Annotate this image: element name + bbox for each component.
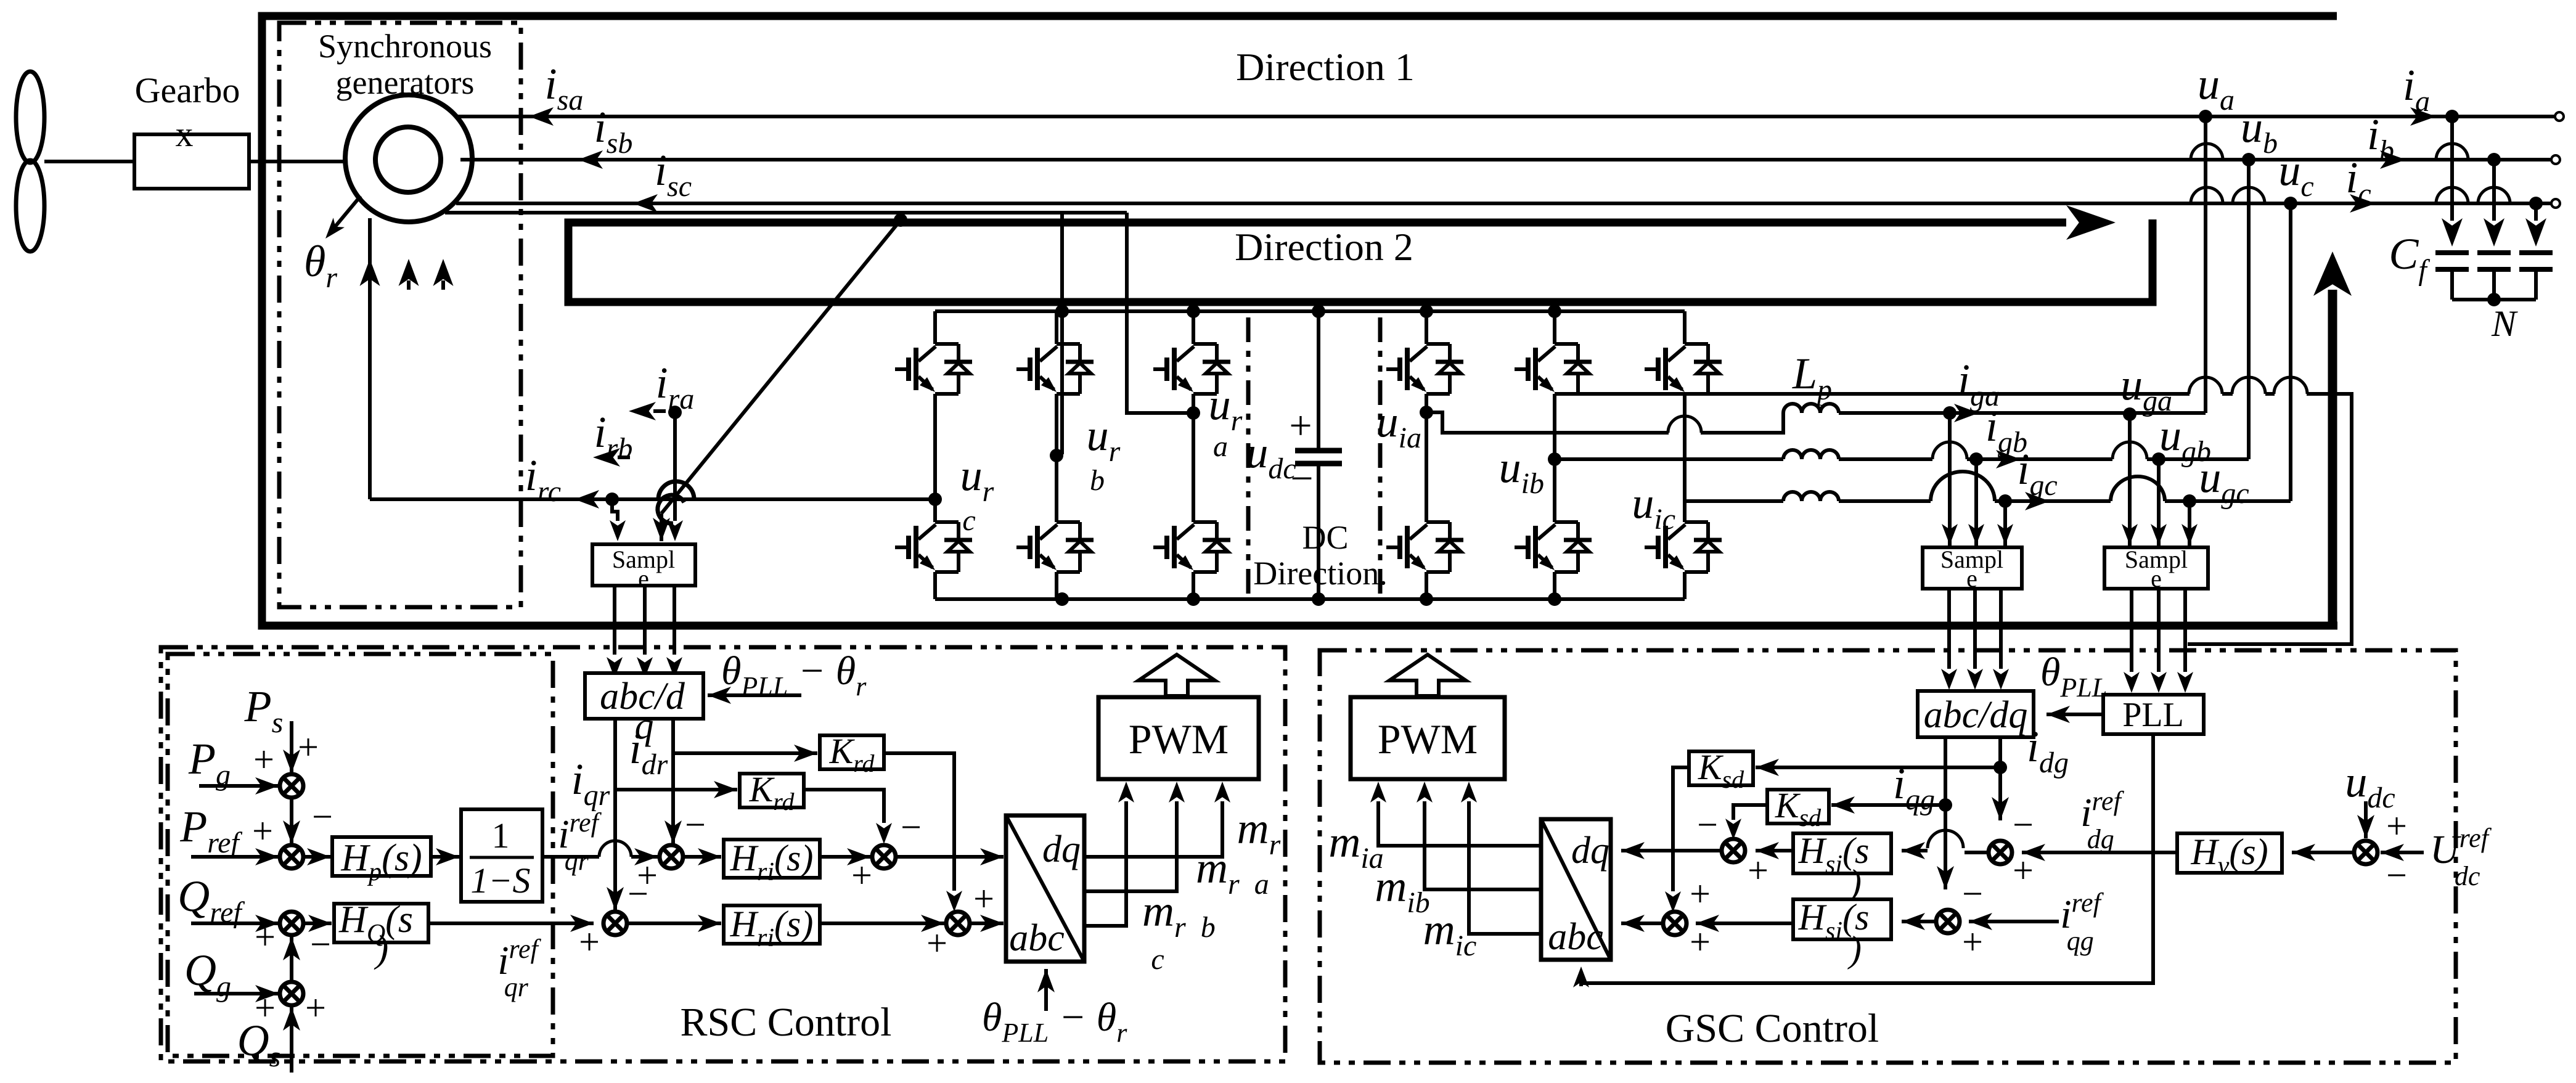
i_ga arrow — [1954, 404, 1979, 422]
svg-text:+: + — [253, 739, 274, 780]
svg-text:+: + — [579, 922, 600, 962]
PLL theta feedback wire to dq/abc — [1573, 734, 2153, 987]
block K_rd 1 — [820, 735, 884, 769]
block PWM rotor — [1098, 697, 1259, 779]
GSC phase a wire inductor to grid tap — [1839, 411, 2206, 415]
i_sc arrow — [633, 194, 658, 213]
i_ra arrow — [629, 402, 666, 420]
IGBT Q2 (RSC lower c) — [895, 522, 972, 572]
GSC leg a upper wire — [1425, 311, 1428, 344]
synchronous generator machine symbol — [345, 95, 472, 222]
H_si2 label — [1798, 897, 1870, 970]
i_b arrow — [2380, 150, 2406, 169]
block H_Q(s) — [334, 904, 428, 942]
svg-text:1: 1 — [492, 815, 510, 856]
RSC leg c lower wire — [933, 572, 937, 599]
i_a arrow — [2410, 107, 2436, 126]
sum junction S12 — [2354, 841, 2378, 864]
abc/dq output wire i_qg — [1944, 737, 1947, 805]
Q_g input arrow — [194, 992, 279, 995]
sample outputs to abc/dq — [607, 586, 682, 678]
svg-text:x: x — [176, 114, 194, 154]
node u_gb — [2152, 452, 2165, 466]
sum junction S2 — [280, 845, 303, 868]
svg-text:+: + — [851, 855, 872, 896]
svg-text:−: − — [1290, 456, 1313, 501]
u_ga wire down to sample — [2128, 414, 2132, 546]
svg-text:): ) — [1847, 929, 1862, 970]
GSC phase b wire inductor to grid tap — [1839, 442, 2249, 459]
node u_b — [2242, 153, 2255, 166]
grid phase line a (i_sa) — [457, 115, 2556, 118]
dq/abc grid outputs to PWM — [1370, 782, 1541, 934]
dash-dot box power references — [168, 654, 553, 1056]
svg-text:c: c — [1151, 943, 1164, 976]
u_b tap vertical — [2247, 160, 2251, 459]
arrows into grid current sample — [1942, 524, 2013, 545]
IGBT Q6 (RSC lower a) — [1153, 522, 1230, 572]
i_rc tap zigzag into sample — [610, 499, 626, 541]
RSC leg c upper wire — [933, 311, 937, 344]
block dq/abc grid — [1541, 819, 1611, 960]
sample label grid voltages — [2125, 546, 2188, 592]
turbine shaft wire — [44, 160, 134, 163]
wire S9 to dq/abc — [1621, 922, 1664, 925]
K_sd1 output to S9 — [1665, 767, 1689, 912]
grid terminal a — [2555, 112, 2564, 121]
IGBT Q3 (RSC upper b) — [1016, 344, 1094, 394]
sum junction S9 — [1663, 912, 1687, 935]
block H_ri(s) q-axis — [724, 905, 820, 944]
block abc/dq rotor — [585, 673, 703, 719]
crossing hop of i_ra wire over i_rc wire — [658, 481, 694, 523]
dq/abc outputs to PWM — [1084, 782, 1230, 926]
wire Hri1 to S4 — [820, 855, 870, 859]
PLL output arrow to abc/dq — [2046, 713, 2103, 716]
dash-dot box synchronous generator — [279, 23, 521, 607]
svg-text:abc: abc — [1548, 916, 1603, 958]
i_qr wire down — [613, 719, 617, 910]
grid voltage sample outputs — [2124, 589, 2193, 693]
GSC leg a midpoint wire — [1425, 394, 1428, 522]
block 1/(1-S) — [461, 809, 542, 902]
K_sd2 output to S10 — [1725, 805, 1767, 840]
label u_r c — [960, 451, 994, 537]
svg-text:−: − — [685, 804, 706, 845]
diagonal wire from auxiliary line to sample — [661, 220, 901, 513]
inductor L_p phase c — [1783, 492, 1839, 501]
sum junction S3 — [660, 845, 683, 868]
svg-text:DC: DC — [1302, 519, 1348, 556]
1/(1-S) label — [470, 815, 534, 901]
svg-text:+: + — [2013, 850, 2034, 891]
GSC leg b upper wire — [1553, 311, 1556, 344]
svg-text:−: − — [2013, 804, 2034, 845]
Q_ref input arrow — [191, 922, 279, 925]
i_dg wire to K_sd1 — [1756, 766, 2000, 769]
wire S8 up to S5 — [290, 937, 293, 983]
i_gc wire down to sample — [2003, 501, 2007, 546]
IGBT Q11 (GSC upper c) — [1645, 344, 1722, 394]
sum junction S5 — [280, 912, 303, 935]
svg-text:+: + — [973, 878, 994, 919]
node i_gc — [1998, 494, 2012, 508]
sum junction S6 — [603, 912, 627, 935]
node u_ia — [1420, 406, 1433, 419]
svg-text:PWM: PWM — [1129, 716, 1229, 762]
label u_r a — [1209, 380, 1243, 463]
wind turbine blades — [16, 72, 44, 251]
svg-text:−: − — [312, 796, 333, 837]
H_si1 label — [1798, 830, 1870, 903]
hops of line c over C_f legs a b — [2436, 187, 2510, 203]
IGBT Q8 (GSC lower a) — [1386, 522, 1463, 572]
node on auxiliary line feeding rotor sample — [894, 213, 907, 227]
sum junction S10 — [1722, 839, 1745, 862]
rotor wire i_rc — [370, 497, 935, 501]
block H_si(s) q — [1793, 899, 1891, 939]
i_gb arrow — [1996, 450, 2021, 468]
GSC leg b midpoint wire — [1553, 394, 1556, 522]
dash-dot box RSC control — [161, 647, 1285, 1061]
label synchronous generators — [318, 28, 492, 101]
wire S4 to dq/abc — [895, 855, 1004, 859]
wire S11 to H_si1 — [1902, 830, 1989, 859]
sum junction S13 — [1936, 910, 1960, 933]
wire S13 to H_si2 — [1902, 920, 1937, 923]
RSC leg a lower wire — [1192, 572, 1195, 599]
svg-text:+: + — [1690, 873, 1711, 914]
node i_gb — [1969, 452, 1983, 466]
P_ref input arrow — [191, 855, 279, 859]
GSC leg a lower wire — [1425, 572, 1428, 599]
svg-text:Direction.: Direction. — [1253, 555, 1387, 592]
shaft wire to generator — [249, 160, 346, 163]
block K_sd 1 — [1689, 751, 1753, 785]
IGBT Q1 (RSC upper c) — [895, 344, 972, 394]
wire from auxiliary line down to RSC leg b — [1060, 213, 1064, 454]
node u_ga — [2123, 407, 2136, 421]
sum junction S4 — [872, 845, 896, 868]
IGBT Q12 (GSC lower c) — [1645, 522, 1722, 572]
i_qg_ref arrow into S13 — [1969, 920, 2059, 923]
IGBT Q7 (GSC upper a) — [1386, 344, 1463, 394]
svg-text:+: + — [1748, 850, 1768, 891]
svg-text:+: + — [1962, 922, 1983, 962]
svg-text:+: + — [255, 917, 276, 957]
grid terminal c — [2551, 199, 2560, 208]
i_ra node — [668, 406, 682, 419]
theta_r rotor-angle arrow — [333, 196, 361, 229]
thick Direction-2 power-flow path — [568, 205, 2153, 302]
GSC phase c wire inductor to grid tap — [1839, 472, 2291, 501]
svg-text:+: + — [305, 987, 326, 1028]
theta arrow into dq/abc bottom — [1044, 969, 1048, 1011]
u_gb wire down to sample — [2157, 459, 2161, 546]
u_gc wire down to sample — [2188, 501, 2191, 546]
i_dg wire down to S11 — [1998, 767, 2002, 820]
wire from auxiliary line down to RSC leg a — [1127, 213, 1190, 413]
svg-text:+: + — [2386, 806, 2407, 846]
gearbox — [134, 134, 249, 189]
block H_ri(s) d-axis — [724, 840, 820, 878]
svg-text:Synchronous: Synchronous — [318, 28, 492, 65]
wire 1/(1-S) to S3 — [542, 841, 658, 865]
thick outer border of machine/converter section — [262, 16, 2337, 626]
wire S12 to H_v — [2292, 851, 2355, 854]
block H_p(s) — [332, 837, 431, 876]
u_a tap vertical — [2204, 116, 2207, 413]
svg-text:Gearbo: Gearbo — [135, 70, 240, 110]
wire H_v to S11 — [2022, 851, 2177, 854]
svg-text:a: a — [1213, 430, 1228, 463]
DC link dash-dot separator right — [1378, 317, 1383, 598]
i_c arrow — [2350, 194, 2376, 213]
i_gc arrow — [2025, 492, 2050, 510]
IGBT Q10 (GSC lower b) — [1515, 522, 1592, 572]
sample box grid voltages — [2104, 547, 2208, 589]
block PWM grid — [1351, 697, 1505, 779]
wire Hri2 to S7 — [820, 922, 944, 925]
DC bus negative rail — [935, 597, 1685, 601]
block K_rd 2 — [740, 774, 804, 807]
arrows into grid voltage sample — [2122, 524, 2198, 545]
gearbox label — [135, 70, 240, 154]
svg-text:PWM: PWM — [1378, 716, 1478, 762]
IGBT Q9 (GSC upper b) — [1515, 344, 1592, 394]
i_sb arrow — [578, 150, 603, 169]
node u_a — [2199, 110, 2212, 123]
RSC leg c midpoint wire — [933, 394, 937, 522]
node i_rc — [605, 492, 619, 506]
svg-text:1−S: 1−S — [470, 860, 530, 901]
GSC leg c lower wire — [1683, 572, 1687, 599]
DC Direction label — [1253, 519, 1387, 592]
wire rotor phase c down from generator — [368, 218, 372, 499]
block H_si(s) d — [1793, 833, 1891, 873]
wire S10 to dq/abc — [1621, 849, 1722, 852]
RSC leg b upper wire — [1055, 311, 1058, 344]
sum junction S1 — [280, 774, 303, 798]
RSC leg b lower wire — [1055, 572, 1058, 599]
sum junction S11 — [1989, 841, 2012, 864]
GSC phase c wire to inductor — [1685, 499, 1783, 503]
sum junction S7 — [946, 912, 970, 935]
DC link dash-dot separator left — [1246, 317, 1251, 598]
wire HQ to S6 — [428, 922, 594, 925]
hop of line b over C_f leg a — [2436, 144, 2468, 160]
grid phase line c (i_sc) — [456, 202, 2551, 205]
hollow arrow above PWM grid — [1389, 655, 1466, 696]
i_qr branch to K_rd2 — [615, 788, 737, 791]
svg-text:e: e — [1966, 565, 1977, 592]
wire H_si2 output to S9 — [1696, 922, 1793, 925]
DC link capacitor u_dc — [1295, 311, 1342, 599]
svg-text:dq: dq — [1042, 828, 1081, 870]
block PLL — [2103, 695, 2204, 734]
svg-text:+: + — [1289, 403, 1312, 448]
svg-text:−: − — [1962, 873, 1983, 914]
Q_s input arrow — [290, 1007, 293, 1073]
i_dr branch to K_rd1 — [673, 751, 817, 755]
svg-text:): ) — [374, 928, 389, 970]
hops of line c over u_a u_b taps — [2191, 187, 2223, 203]
block H_v(s) — [2177, 833, 2282, 873]
inductor L_p phase a — [1783, 404, 1839, 413]
i_qg wire to K_sd2 — [1831, 803, 1945, 807]
IGBT Q5 (RSC upper a) — [1153, 344, 1230, 394]
K_rd1 output wire to S7 — [884, 753, 962, 912]
wire S7 to dq/abc — [969, 922, 1004, 925]
svg-text:abc/dq: abc/dq — [1924, 694, 2028, 736]
GSC phase a wire to inductor — [1426, 412, 1783, 433]
i_sa arrow — [529, 107, 554, 126]
node u_r c midpoint — [928, 492, 942, 506]
svg-text:GSC Control: GSC Control — [1666, 1006, 1879, 1051]
node u_c — [2284, 197, 2297, 210]
GSC phase b wire to inductor — [1555, 457, 1783, 461]
GSC leg c upper wire — [1683, 311, 1687, 344]
sample box grid currents — [1923, 547, 2022, 589]
label u_r b — [1087, 411, 1121, 497]
inductor L_p phase b — [1783, 450, 1839, 459]
i_ra wire down to sample — [667, 412, 683, 541]
svg-text:−: − — [1697, 804, 1718, 845]
RSC leg a upper wire — [1192, 311, 1195, 344]
RSC leg b midpoint wire — [1055, 394, 1058, 522]
GSC leg c midpoint wire — [1683, 394, 1687, 522]
node u_ib — [1548, 452, 1561, 466]
u_c tap vertical — [2289, 203, 2292, 501]
block abc/dq grid — [1918, 691, 2034, 737]
svg-text:+: + — [298, 727, 319, 767]
hollow arrow above PWM rotor — [1139, 655, 1215, 696]
svg-text:b: b — [1090, 464, 1105, 497]
svg-text:e: e — [2151, 565, 2162, 592]
u_dc arrow into S12 — [2364, 801, 2368, 838]
sum junction S8 — [280, 982, 303, 1005]
svg-text:Direction 2: Direction 2 — [1235, 225, 1413, 269]
svg-text:+: + — [926, 923, 947, 963]
GSC leg b lower wire — [1553, 572, 1556, 599]
wire S1 to S2 — [290, 797, 293, 844]
svg-text:c: c — [962, 504, 975, 537]
node u_gc — [2183, 494, 2196, 508]
theta input arrow to abc/dq — [708, 693, 801, 697]
i_dr wire down — [671, 719, 675, 844]
sample box rotor currents — [592, 544, 695, 586]
P_g input arrow — [199, 784, 279, 788]
IGBT Q4 (RSC lower b) — [1016, 522, 1094, 572]
K_rd2 output wire to S4 — [804, 790, 892, 844]
u_dc sense wire from converter to control — [1555, 377, 2352, 644]
DC bus junction dots — [1055, 304, 1561, 606]
i_rc arrow — [574, 490, 599, 509]
svg-text:PLL: PLL — [2122, 696, 2184, 734]
node i_ga — [1943, 406, 1957, 420]
big thick arrow feedback to grid — [2313, 251, 2352, 626]
svg-text:dq: dq — [1571, 830, 1609, 872]
wire S5 to HQ — [303, 922, 332, 925]
i_gb wire down to sample — [1974, 459, 1978, 546]
grid current sample outputs — [1941, 589, 2009, 690]
svg-text:Direction 1: Direction 1 — [1236, 45, 1415, 89]
i_qg wire down to S13 — [1937, 798, 1954, 889]
block dq/abc rotor — [1006, 815, 1084, 962]
wire H_si1 output to S10 — [1756, 849, 1793, 852]
svg-text:+: + — [252, 811, 273, 851]
grid terminal b — [2551, 155, 2560, 164]
DC bus positive rail — [935, 309, 1685, 313]
node i_dg — [1993, 761, 2007, 774]
grid phase line b (i_sb) — [460, 158, 2551, 161]
node u_r a midpoint — [1187, 406, 1200, 420]
svg-text:−: − — [901, 807, 922, 848]
RSC leg a midpoint wire — [1192, 394, 1195, 522]
i_rb arrow — [593, 448, 630, 467]
hop of line b over u_a tap — [2191, 144, 2223, 160]
svg-text:RSC Control: RSC Control — [681, 1000, 892, 1045]
svg-text:generators: generators — [336, 64, 475, 101]
rotor wire arrows into generator — [360, 259, 454, 290]
wire Hp to 1/(1-S) — [431, 855, 459, 859]
filter capacitor bank C_f — [2435, 110, 2553, 306]
abc/dq rotor label — [600, 676, 685, 747]
sample label grid currents — [1940, 546, 2003, 592]
svg-text:abc: abc — [1009, 917, 1065, 959]
wire S3 to Hri1 — [682, 855, 721, 859]
P_s input arrow — [290, 721, 293, 773]
dash-dot box GSC control — [1320, 650, 2456, 1063]
abc/dq output wire i_dg — [1998, 737, 2002, 767]
svg-text:−: − — [628, 873, 648, 914]
wire S6 to Hri2 — [626, 922, 721, 925]
sample label rotor — [612, 546, 675, 592]
stator auxiliary line to rotor-side converter — [445, 211, 1127, 215]
H_Q(s) label — [338, 899, 413, 970]
i_ga wire down to sample — [1948, 413, 1952, 546]
svg-text:N: N — [2491, 303, 2518, 344]
wire S2 to Hp — [303, 855, 330, 859]
block K_sd 2 — [1767, 790, 1829, 823]
node u_r b midpoint — [1050, 449, 1063, 462]
arrow of diagonal wire into sample — [660, 513, 663, 541]
U_dc_ref arrow into S12 — [2381, 851, 2424, 854]
